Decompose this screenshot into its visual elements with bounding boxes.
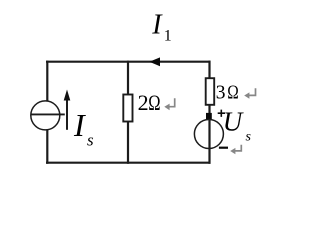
wire bottom (from left corner to right corner) [46, 162, 211, 164]
resistor 3 ohm body [206, 78, 215, 105]
Is reference arrow (up) [66, 99, 68, 130]
wire left vertical upper segment [46, 61, 48, 102]
svg-text:U: U [223, 106, 244, 136]
svg-text:2: 2 [138, 90, 149, 115]
wire left vertical lower segment [46, 130, 48, 164]
wire right branch through voltage source down to bottom [208, 105, 210, 164]
minus polarity mark [219, 147, 228, 149]
voltage source Us circle [194, 120, 223, 149]
svg-text:Ω: Ω [148, 90, 160, 115]
wire top (node between I1 arrow, from left corner to right corner) [46, 61, 211, 63]
wire right branch upper segment [208, 61, 210, 79]
svg-text:1: 1 [164, 28, 172, 45]
wire middle branch upper segment [127, 61, 129, 95]
resistor 2 ohm body [123, 95, 132, 122]
I1 current arrow on top wire (pointing left) [149, 57, 160, 66]
pilcrow return mark after 3 ohm [244, 88, 255, 99]
current source horizontal bar [31, 113, 65, 115]
current source Is circle [31, 101, 60, 130]
junction square node above Us [206, 113, 212, 120]
svg-text:3: 3 [216, 83, 226, 104]
pilcrow return mark after minus [230, 145, 241, 155]
svg-text:s: s [246, 130, 252, 145]
svg-text:s: s [87, 131, 94, 150]
pilcrow return mark after 2 ohm [164, 98, 174, 110]
svg-text:I: I [151, 10, 163, 41]
svg-text:I: I [73, 107, 86, 143]
wire middle branch lower segment [127, 121, 129, 164]
plus polarity mark [218, 110, 225, 117]
svg-text:Ω: Ω [227, 83, 239, 104]
